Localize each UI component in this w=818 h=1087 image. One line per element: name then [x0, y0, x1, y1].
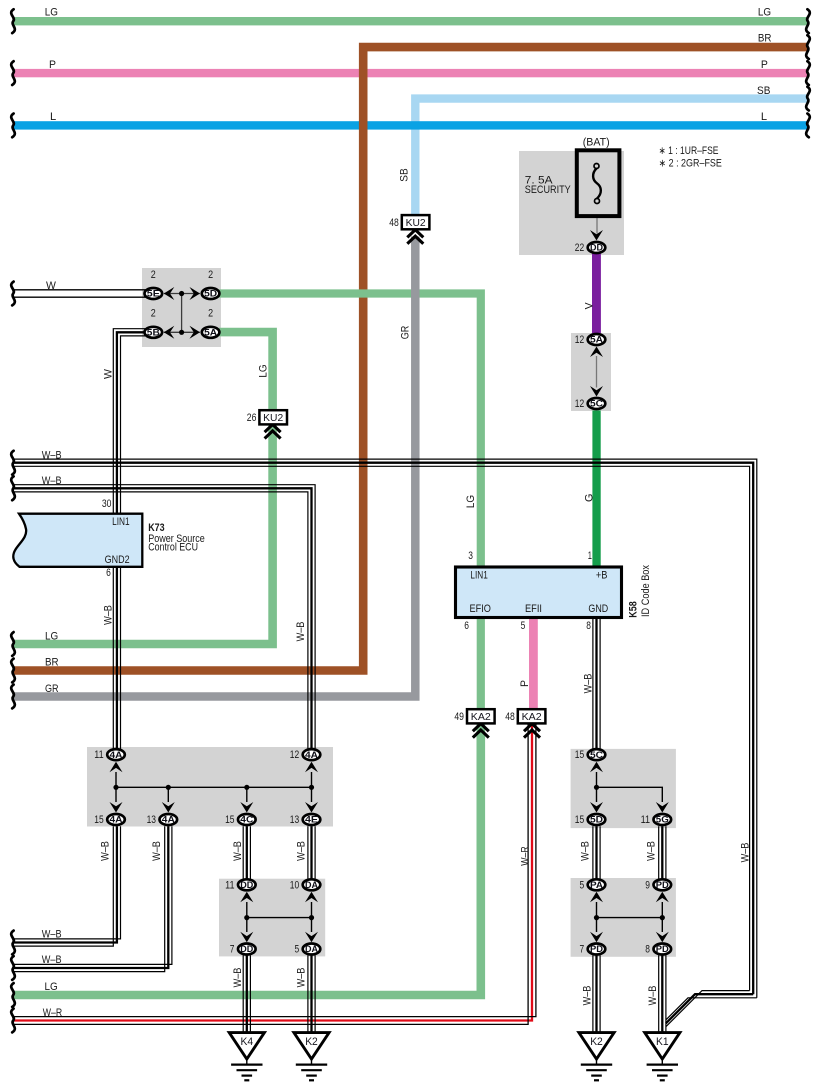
svg-text:6: 6 [464, 620, 469, 632]
wire LG (light green) top row [14, 17, 807, 25]
svg-text:5: 5 [295, 944, 300, 956]
svg-text:GND2: GND2 [105, 554, 130, 566]
wire L (blue) row [14, 121, 807, 129]
ground K2 (right) [579, 1033, 614, 1059]
svg-text:W–B: W–B [739, 843, 751, 863]
svg-text:5E: 5E [147, 288, 160, 299]
svg-text:P: P [519, 680, 531, 687]
svg-text:15: 15 [94, 814, 103, 826]
connector 13 4E [303, 814, 321, 825]
svg-text:8: 8 [645, 944, 650, 956]
chevron marks KU2-26 [265, 425, 281, 433]
svg-text:W: W [103, 369, 115, 379]
svg-text:∗ 1 : 1UR–FSE: ∗ 1 : 1UR–FSE [659, 145, 719, 157]
svg-text:9: 9 [645, 879, 650, 891]
PA/PD block bus, dots and arrows [597, 917, 663, 919]
wire LG from K58 EFIO through KA2-49 to left edge [477, 619, 485, 710]
connector pass-through bg (12 5A / 12 5C) [571, 333, 611, 411]
svg-text:PA: PA [590, 879, 603, 890]
connector 11 4A [107, 749, 125, 760]
svg-text:5C: 5C [590, 749, 603, 760]
wire W-B from 13-4E to 10-DA [307, 826, 309, 879]
ECU K58 ID Code Box [456, 567, 622, 618]
connector 12 5A [588, 334, 606, 345]
svg-text:W–B: W–B [99, 841, 111, 861]
svg-text:4A: 4A [110, 814, 123, 825]
svg-text:K58: K58 [628, 601, 640, 617]
wire SB (sky blue) from fuse row to connector KU2-48 [415, 99, 807, 216]
connector 5 PA [588, 879, 606, 890]
wire W from left edge to splice 5E [14, 289, 146, 291]
connector 15 5D [588, 814, 606, 825]
svg-text:4C: 4C [240, 814, 253, 825]
svg-text:7: 7 [580, 944, 585, 956]
fuse area bg (7.5A SECURITY) [519, 151, 624, 255]
svg-text:+B: +B [596, 569, 608, 581]
svg-text:48: 48 [505, 711, 515, 723]
wire LG from splice 5A through KU2-26 to left edge [219, 332, 273, 410]
wire W-B from 15-5D to 5-PA [592, 826, 594, 879]
wire W-B from 13-4A down-left to edge [14, 826, 172, 964]
svg-text:W–B: W–B [232, 841, 244, 861]
svg-text:49: 49 [454, 711, 464, 723]
svg-text:SB: SB [757, 85, 770, 97]
chevron marks KA2-49 [473, 724, 489, 732]
svg-text:13: 13 [147, 814, 156, 826]
svg-text:8: 8 [586, 620, 591, 632]
svg-text:G: G [583, 494, 595, 502]
connector 11 5G [654, 814, 672, 825]
svg-text:KA2: KA2 [471, 712, 491, 723]
connector 11 DD [238, 879, 256, 890]
svg-text:26: 26 [247, 412, 257, 424]
wire W-B from K58 GND pin 8 to 15-5C [592, 619, 594, 749]
junction block bg (5E/5D/5B/5A) [142, 268, 221, 347]
svg-text:2: 2 [151, 269, 156, 281]
svg-text:K1: K1 [656, 1036, 669, 1048]
junction block bg (PA/PD) [571, 878, 676, 957]
svg-text:W–B: W–B [103, 605, 115, 625]
wire W-B from 15-4A down-left to edge [14, 826, 121, 939]
svg-text:L: L [761, 111, 767, 123]
svg-text:3: 3 [468, 550, 473, 562]
wire W-B from 11-5G to 9-PD [658, 826, 660, 879]
svg-text:LG: LG [257, 364, 269, 377]
svg-text:5: 5 [521, 620, 526, 632]
svg-text:15: 15 [225, 814, 234, 826]
wire W-B from 15-4C to 11-DD [242, 826, 244, 879]
svg-text:DD: DD [240, 879, 253, 890]
svg-text:KU2: KU2 [406, 218, 426, 229]
ground K4 [229, 1033, 264, 1059]
svg-text:EFIO: EFIO [470, 603, 491, 615]
svg-text:11: 11 [94, 749, 103, 761]
connector 12 5C [588, 398, 606, 409]
wire P (pink) from K58 EFII to KA2-48 [529, 619, 538, 710]
svg-text:KA2: KA2 [522, 712, 542, 723]
wire W-B pair row 2: left edge to drop above 12-4A [14, 485, 315, 749]
wire W-B from 8-PD to ground K1 [658, 955, 660, 1033]
ground K2 (left) [294, 1033, 329, 1059]
5C/5D/5G block bus, dot and arrows [596, 772, 598, 787]
connector 12 4A [303, 749, 321, 760]
svg-text:W–B: W–B [42, 475, 62, 487]
DD/DA block bus, dots and arrows [247, 917, 312, 919]
svg-text:5D: 5D [590, 814, 603, 825]
svg-text:5D: 5D [204, 288, 217, 299]
wire W-R red stripe from KA2-48 to left edge [14, 724, 532, 1021]
connector 8 PD [654, 944, 672, 955]
svg-text:W–B: W–B [42, 450, 62, 462]
svg-text:30: 30 [102, 498, 112, 510]
svg-text:W–B: W–B [296, 968, 308, 988]
svg-text:48: 48 [389, 217, 399, 229]
svg-text:KU2: KU2 [263, 413, 283, 424]
fuse-to-DD link and arrow [596, 217, 598, 234]
svg-text:BR: BR [758, 33, 772, 45]
svg-text:LIN1: LIN1 [112, 516, 130, 528]
wire BR (brown) from right edge down to left edge [14, 47, 807, 670]
connector 26 KU2 [259, 410, 287, 424]
wire W-B pair row 1: left edge to far-right drop [14, 459, 757, 998]
svg-text:PD: PD [656, 943, 669, 954]
svg-text:4A: 4A [305, 749, 318, 760]
svg-text:W–B: W–B [647, 986, 659, 1006]
wire LG from splice 5D to K58 LIN1 [219, 294, 481, 566]
svg-text:Control ECU: Control ECU [148, 541, 198, 553]
svg-text:P: P [761, 59, 768, 71]
svg-text:W–B: W–B [295, 622, 307, 642]
svg-text:SB: SB [399, 168, 411, 181]
chevron marks KU2-48 [407, 230, 423, 238]
svg-text:13: 13 [290, 814, 299, 826]
svg-text:(BAT): (BAT) [583, 137, 610, 149]
splice 5B [145, 327, 163, 338]
svg-text:5: 5 [580, 879, 585, 891]
connector 15 4A [107, 814, 125, 825]
svg-text:GR: GR [400, 325, 412, 339]
svg-text:W–B: W–B [645, 841, 657, 861]
svg-text:DD: DD [590, 242, 603, 253]
connector 7 PD [588, 944, 606, 955]
edge break marks (left) [11, 9, 15, 33]
chevron marks KA2-48 [524, 724, 540, 732]
svg-text:5C: 5C [590, 398, 603, 409]
svg-text:W–B: W–B [583, 674, 595, 694]
junction block bg (4A/4C/4E) [87, 747, 333, 827]
junction block bg (DD/DA) [219, 879, 325, 957]
connector 22 DD (fuse output) [588, 242, 606, 253]
splice 5D [202, 288, 220, 299]
svg-text:LG: LG [465, 495, 477, 508]
svg-text:SECURITY: SECURITY [525, 184, 571, 196]
svg-text:4A: 4A [110, 749, 123, 760]
wire V (violet) from fuse DD to connector 5A [592, 254, 601, 334]
svg-text:LIN1: LIN1 [470, 569, 487, 581]
splice links 5E-5D / 5B-5A [164, 293, 200, 295]
svg-text:P: P [49, 59, 56, 71]
svg-text:W–B: W–B [580, 841, 592, 861]
4A block bus, dots and arrows [116, 786, 312, 788]
connector 5 DA [303, 944, 321, 955]
svg-text:12: 12 [575, 398, 584, 410]
connector 13 4A [160, 814, 178, 825]
svg-text:L: L [50, 111, 56, 123]
svg-text:W–R: W–R [519, 846, 531, 866]
connector 7 DD [238, 944, 256, 955]
svg-text:W–B: W–B [42, 929, 62, 941]
svg-text:W: W [46, 280, 56, 292]
svg-text:5A: 5A [590, 334, 603, 345]
connector 15 4C [238, 814, 256, 825]
wire GR (gray) from KU2-48 down to left edge [14, 237, 415, 697]
connector 10 DA [303, 879, 321, 890]
connector 48 KU2 [402, 215, 430, 229]
svg-text:15: 15 [575, 814, 584, 826]
svg-text:W–B: W–B [232, 968, 244, 988]
splice 5E [145, 288, 163, 299]
ground K1 [645, 1033, 680, 1059]
svg-text:W–R: W–R [43, 1007, 63, 1019]
svg-text:5A: 5A [204, 327, 217, 338]
connector 49 KA2 [467, 709, 495, 723]
ECU K73 Power Source Control ECU [13, 514, 142, 567]
connector 5A/5C pass-through arrows [590, 347, 603, 358]
svg-text:2: 2 [151, 307, 156, 319]
edge break marks (right) [806, 9, 810, 33]
svg-text:5G: 5G [656, 814, 669, 825]
svg-text:6: 6 [106, 567, 111, 579]
svg-text:4A: 4A [162, 814, 175, 825]
svg-text:2: 2 [208, 307, 213, 319]
svg-text:W–B: W–B [42, 954, 62, 966]
svg-text:7: 7 [230, 944, 235, 956]
wire W-B from 5-DA to ground K2 [307, 955, 309, 1033]
svg-text:V: V [583, 301, 595, 309]
svg-text:BR: BR [45, 657, 59, 669]
svg-text:LG: LG [45, 631, 58, 643]
svg-text:11: 11 [225, 879, 234, 891]
svg-text:K4: K4 [241, 1036, 254, 1048]
svg-text:LG: LG [45, 981, 58, 993]
svg-text:PD: PD [590, 943, 603, 954]
splice 5A [202, 327, 220, 338]
connector 48 KA2 [518, 709, 546, 723]
connector 9 PD [654, 879, 672, 890]
wire W-B far-right horizontal + diagonal merge into K1 lead [666, 998, 757, 1020]
svg-text:2: 2 [208, 269, 213, 281]
wire W from splice 5B down to K73 LIN1 pin 30 [113, 329, 146, 514]
svg-text:W–B: W–B [296, 841, 308, 861]
wire G (green) from connector 5C to K58 +B [592, 410, 600, 566]
fuse 7.5A SECURITY [577, 150, 620, 216]
wire W-B from 7-PD to ground K2 [592, 955, 594, 1033]
connector 15 5C [588, 749, 606, 760]
svg-text:LG: LG [758, 7, 771, 19]
svg-text:11: 11 [641, 814, 650, 826]
svg-text:K2: K2 [305, 1036, 318, 1048]
wire P (pink) row [14, 69, 807, 77]
svg-text:12: 12 [290, 749, 299, 761]
svg-text:K2: K2 [590, 1036, 603, 1048]
wire W-B from K73 GND2 pin 6 to 11-4A [112, 566, 114, 749]
svg-text:4E: 4E [305, 814, 318, 825]
svg-text:GR: GR [45, 683, 59, 695]
svg-text:10: 10 [290, 879, 299, 891]
svg-text:22: 22 [575, 242, 584, 254]
wire W-B from 7-DD to ground K4 [242, 955, 244, 1033]
svg-text:DD: DD [240, 943, 253, 954]
svg-text:15: 15 [575, 749, 584, 761]
svg-text:GND: GND [588, 603, 608, 615]
svg-text:EFII: EFII [525, 603, 542, 615]
svg-text:12: 12 [575, 334, 584, 346]
junction block bg (5C/5D/5G) [571, 749, 676, 828]
svg-text:LG: LG [45, 7, 58, 19]
svg-text:DA: DA [305, 943, 318, 954]
svg-text:5B: 5B [147, 327, 160, 338]
wire W-R outlines from KA2-48 to left edge [14, 724, 536, 1017]
svg-text:ID Code Box: ID Code Box [640, 564, 652, 617]
svg-text:∗ 2 : 2GR–FSE: ∗ 2 : 2GR–FSE [659, 158, 722, 170]
svg-text:W–B: W–B [582, 986, 594, 1006]
svg-text:W–B: W–B [151, 841, 163, 861]
svg-text:PD: PD [656, 879, 669, 890]
svg-text:DA: DA [305, 879, 318, 890]
svg-text:1: 1 [588, 550, 592, 562]
